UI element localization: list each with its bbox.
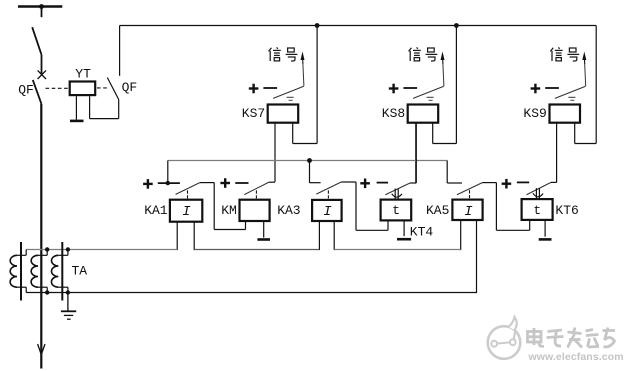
svg-text:I: I (323, 204, 332, 220)
svg-text:KS8: KS8 (382, 106, 405, 121)
svg-text:I: I (464, 204, 473, 220)
svg-text:TA: TA (72, 264, 88, 279)
svg-text:KS9: KS9 (523, 106, 546, 121)
svg-text:YT: YT (75, 67, 91, 82)
svg-text:KS7: KS7 (242, 106, 265, 121)
svg-text:QF: QF (122, 80, 138, 95)
svg-text:KT4: KT4 (410, 225, 434, 240)
svg-text:KT6: KT6 (555, 203, 578, 218)
svg-text:KA1: KA1 (144, 203, 168, 218)
svg-text:www.elecfans.com: www.elecfans.com (528, 351, 624, 363)
svg-text:KM: KM (221, 203, 237, 218)
svg-text:t: t (533, 203, 541, 218)
svg-text:KA3: KA3 (277, 203, 300, 218)
svg-text:QF: QF (18, 83, 34, 98)
svg-text:I: I (182, 204, 191, 220)
svg-text:t: t (392, 203, 400, 218)
svg-text:KA5: KA5 (426, 203, 449, 218)
